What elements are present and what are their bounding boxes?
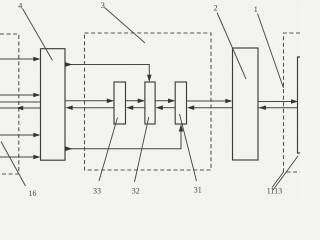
leader line for label 1113 short <box>272 172 284 188</box>
arrowhead into block 4 wire 5 <box>33 155 40 160</box>
leader line for label 2 <box>217 13 246 80</box>
unit 33 <box>114 82 126 124</box>
svg-text:31: 31 <box>194 186 202 195</box>
arrowhead bus A into block 2 <box>225 99 232 104</box>
unit 31 <box>175 82 186 124</box>
arrowhead down into unit 32 <box>147 75 152 82</box>
arrowhead into module 16 return wire <box>16 106 23 111</box>
wire bus B block 11 to block 2 <box>258 107 298 109</box>
svg-text:33: 33 <box>93 186 101 195</box>
arrowhead into block 4 wire 1 <box>33 57 40 62</box>
block 11 (partial, inside module 1) <box>298 57 301 153</box>
leader line for label 4 <box>23 9 53 61</box>
leader line for label 16 <box>1 142 26 187</box>
wire bus B unit 33 to block 4 <box>72 107 114 109</box>
arrowhead bus B into unit 31 <box>187 105 194 110</box>
arrowhead into block 4 wire 4 <box>33 133 40 138</box>
wire bus B unit 31 to unit 32 <box>162 107 175 109</box>
arrowhead bus A into unit 32 <box>138 99 145 104</box>
leader line for label 33 <box>99 118 118 182</box>
wire bus A unit 32 to unit 31 <box>155 100 174 102</box>
wire bus A unit 33 to unit 32 <box>126 100 144 102</box>
arrowhead bus B into unit 33 <box>126 105 133 110</box>
wire input 4 to block 4 <box>0 134 39 136</box>
leader line for label 31 <box>180 114 197 181</box>
svg-text:1113: 1113 <box>267 186 282 195</box>
leader line for label 1113 long <box>273 156 298 190</box>
wire input 3 to block 4 <box>0 101 41 103</box>
arrowhead into block 4 wire 2 <box>33 93 40 98</box>
arrowhead bus B into unit 32 <box>156 105 163 110</box>
wire bus B block 2 to unit 31 <box>194 107 233 109</box>
leader line for label 3 <box>105 8 146 44</box>
arrowhead bus B into block 2 <box>259 105 266 110</box>
leader line for label 32 <box>135 117 149 182</box>
arrowhead up into unit 31 <box>179 124 184 131</box>
wire bus A block 4 to unit 33 <box>65 100 113 102</box>
wire block 4 to unit 32 top <box>65 65 149 81</box>
wire input 5 to block 4 <box>0 156 39 158</box>
arrowhead bus A into block 11 <box>291 99 298 104</box>
arrowhead bus B into block 4 <box>66 105 73 110</box>
unit 32 <box>145 82 155 124</box>
svg-text:1: 1 <box>254 4 258 14</box>
block 4 <box>41 49 66 161</box>
module 1 dashed box (right, cut off) <box>284 33 301 172</box>
block 2 <box>233 48 259 160</box>
arrowhead on wire to unit 32 top <box>65 62 72 67</box>
arrowhead on wire to unit 31 bottom <box>65 146 72 151</box>
svg-text:3: 3 <box>101 0 105 10</box>
svg-text:2: 2 <box>213 3 217 13</box>
wire bus B unit 32 to unit 33 <box>133 107 145 109</box>
svg-text:4: 4 <box>18 0 23 10</box>
arrowhead bus A into unit 33 <box>107 99 114 104</box>
svg-text:16: 16 <box>29 189 37 198</box>
wire input 2 to block 4 <box>0 94 39 96</box>
arrowhead bus A into unit 31 <box>168 99 175 104</box>
module 3 dashed box (middle) <box>85 33 212 170</box>
wire bus A block 2 to block 11 <box>258 101 297 103</box>
module 16 dashed box (left, cut off) <box>0 34 19 174</box>
leader line for label 1 <box>258 14 284 89</box>
paper noise texture <box>0 0 300 200</box>
wire bus A unit 31 to block 2 <box>187 100 232 102</box>
wire input 1 to block 4 <box>0 58 39 60</box>
svg-text:32: 32 <box>132 186 140 195</box>
wire return from block 4 to module 16 <box>0 107 41 109</box>
wire block 4 to unit 31 bottom <box>65 126 181 149</box>
